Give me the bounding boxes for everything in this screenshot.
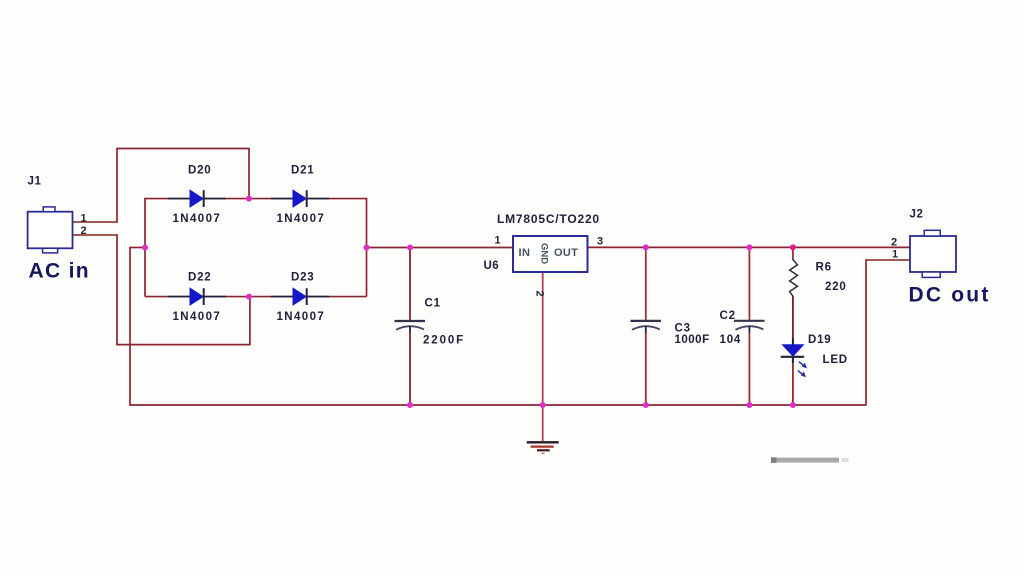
junction C1 bottom — [407, 402, 413, 408]
wire C2 branch lower — [748, 333, 750, 406]
svg-text:220: 220 — [825, 281, 847, 293]
junction LED bottom — [790, 402, 796, 408]
value 1N4007 of D20 — [173, 213, 222, 225]
wire up into bridge bottom node — [249, 297, 251, 346]
label DC out — [909, 284, 991, 307]
label D19 — [808, 334, 832, 346]
main output rail wire right of regulator — [588, 246, 911, 248]
wire horizontal to bridge bottom node — [116, 344, 250, 346]
connector J1 — [28, 207, 73, 253]
label LM7805C/TO220 — [497, 212, 600, 226]
value 1N4007 of D21 — [277, 213, 326, 225]
LED D19 — [781, 338, 807, 377]
pin number 1 of J1 — [81, 213, 87, 225]
svg-text:D20: D20 — [188, 165, 212, 177]
wire vertical from J2 pin1 down to bottom rail — [865, 259, 867, 404]
label J1 — [28, 176, 42, 188]
wire from left mid node to x130 — [130, 247, 146, 249]
svg-text:DC out: DC out — [909, 284, 991, 307]
svg-text:1: 1 — [495, 235, 501, 247]
diode D22 — [168, 288, 226, 305]
svg-text:1N4007: 1N4007 — [173, 213, 222, 225]
pin number 1 of U6 — [495, 235, 501, 247]
wire top horizontal — [116, 148, 249, 150]
junction bridge left node — [142, 245, 148, 251]
wire C1 branch upper — [409, 248, 411, 322]
wire J2 pin1 stub — [866, 259, 910, 261]
junction C3 bottom — [643, 402, 649, 408]
svg-text:OUT: OUT — [554, 247, 578, 259]
pin number 1 of J2 — [892, 249, 898, 261]
ground symbol — [527, 442, 559, 453]
value 1N4007 of D22 — [173, 311, 222, 323]
svg-text:LM7805C/TO220: LM7805C/TO220 — [497, 212, 600, 226]
junction bridge right node — [364, 245, 370, 251]
svg-text:D23: D23 — [291, 272, 315, 284]
wire J1 pin1 stub — [73, 221, 118, 223]
resistor R6 — [790, 260, 798, 297]
wire C2 branch upper — [748, 247, 750, 320]
label U6 — [484, 260, 500, 272]
label D21 — [291, 165, 315, 177]
svg-text:2: 2 — [81, 225, 87, 237]
svg-text:J1: J1 — [28, 176, 42, 188]
wire J1 pin2 stub — [73, 234, 118, 236]
svg-text:3: 3 — [597, 236, 603, 248]
wire vertical left down to bottom rail — [129, 247, 131, 405]
junction R6 top — [790, 244, 796, 250]
svg-text:R6: R6 — [816, 261, 832, 273]
svg-text:2: 2 — [891, 237, 897, 249]
pin number 2 of J1 — [81, 225, 87, 237]
wire vertical from pin1 up — [116, 149, 118, 223]
pin number 3 of U6 — [597, 236, 603, 248]
capacitor C2 — [734, 321, 765, 333]
diode D23 — [271, 288, 329, 305]
label C2 — [720, 310, 736, 322]
svg-text:2: 2 — [534, 291, 546, 297]
diode D21 — [271, 190, 329, 207]
svg-text:AC in: AC in — [29, 260, 90, 283]
junction ground node — [540, 402, 546, 408]
label C3 — [675, 323, 691, 335]
wire down to bridge top node — [248, 148, 250, 199]
diode D20 — [168, 190, 226, 207]
svg-text:C2: C2 — [720, 310, 736, 322]
svg-text:1000F: 1000F — [675, 334, 710, 346]
main output rail wire left of regulator — [366, 247, 513, 249]
junction C2 bottom — [746, 402, 752, 408]
pin number 2 of U6 rotated — [534, 291, 546, 297]
junction C1 top — [407, 245, 413, 251]
connector J2 — [910, 230, 956, 277]
value 1000F of C3 — [675, 334, 710, 346]
svg-text:104: 104 — [720, 334, 742, 346]
junction C3 top — [643, 244, 649, 250]
svg-text:LED: LED — [823, 354, 848, 366]
wire C3 branch upper — [645, 247, 647, 321]
svg-text:C3: C3 — [675, 323, 691, 335]
label J2 — [910, 209, 924, 221]
svg-text:2200F: 2200F — [423, 335, 465, 347]
value 104 of C2 — [720, 334, 742, 346]
label C1 — [425, 298, 441, 310]
capacitor C3 — [631, 321, 662, 333]
wire vertical from pin2 down — [116, 234, 118, 344]
value 220 of R6 — [825, 281, 847, 293]
junction bridge top node — [246, 196, 252, 202]
bottom rail wire — [129, 404, 867, 406]
label D20 — [188, 165, 212, 177]
capacitor C1 — [395, 321, 426, 333]
svg-text:GND: GND — [539, 243, 550, 264]
label D22 — [188, 272, 212, 284]
svg-text:U6: U6 — [484, 260, 500, 272]
svg-text:1N4007: 1N4007 — [277, 213, 326, 225]
junction C2 top — [746, 244, 752, 250]
svg-text:1N4007: 1N4007 — [173, 311, 222, 323]
svg-text:D21: D21 — [291, 165, 315, 177]
wire C3 branch lower — [645, 333, 647, 406]
gray scrollbar artifact — [771, 457, 849, 463]
bridge bottom edge wire — [145, 296, 367, 298]
value 2200F of C1 — [423, 335, 465, 347]
label D23 — [291, 272, 315, 284]
wire rail to resistor R6 — [792, 247, 794, 260]
label R6 — [816, 261, 832, 273]
wire regulator GND down to ground — [542, 272, 544, 441]
junction bridge bottom node — [246, 294, 252, 300]
wire R6 to LED — [792, 296, 794, 345]
bridge right edge wire — [366, 198, 368, 297]
svg-text:1N4007: 1N4007 — [277, 311, 326, 323]
svg-text:D22: D22 — [188, 272, 212, 284]
svg-text:C1: C1 — [425, 298, 441, 310]
bridge top edge wire — [145, 198, 367, 200]
value LED of D19 — [823, 354, 848, 366]
svg-text:IN: IN — [519, 247, 531, 259]
voltage regulator U6 LM7805 — [513, 236, 588, 272]
bridge left edge wire — [144, 198, 146, 297]
pin number 2 of J2 — [891, 237, 897, 249]
value 1N4007 of D23 — [277, 311, 326, 323]
svg-text:D19: D19 — [808, 334, 832, 346]
wire LED to bottom rail — [792, 357, 794, 405]
svg-text:1: 1 — [81, 213, 87, 225]
svg-text:1: 1 — [892, 249, 898, 261]
svg-text:J2: J2 — [910, 209, 924, 221]
wire C1 branch lower — [409, 333, 411, 406]
label AC in — [29, 260, 90, 283]
